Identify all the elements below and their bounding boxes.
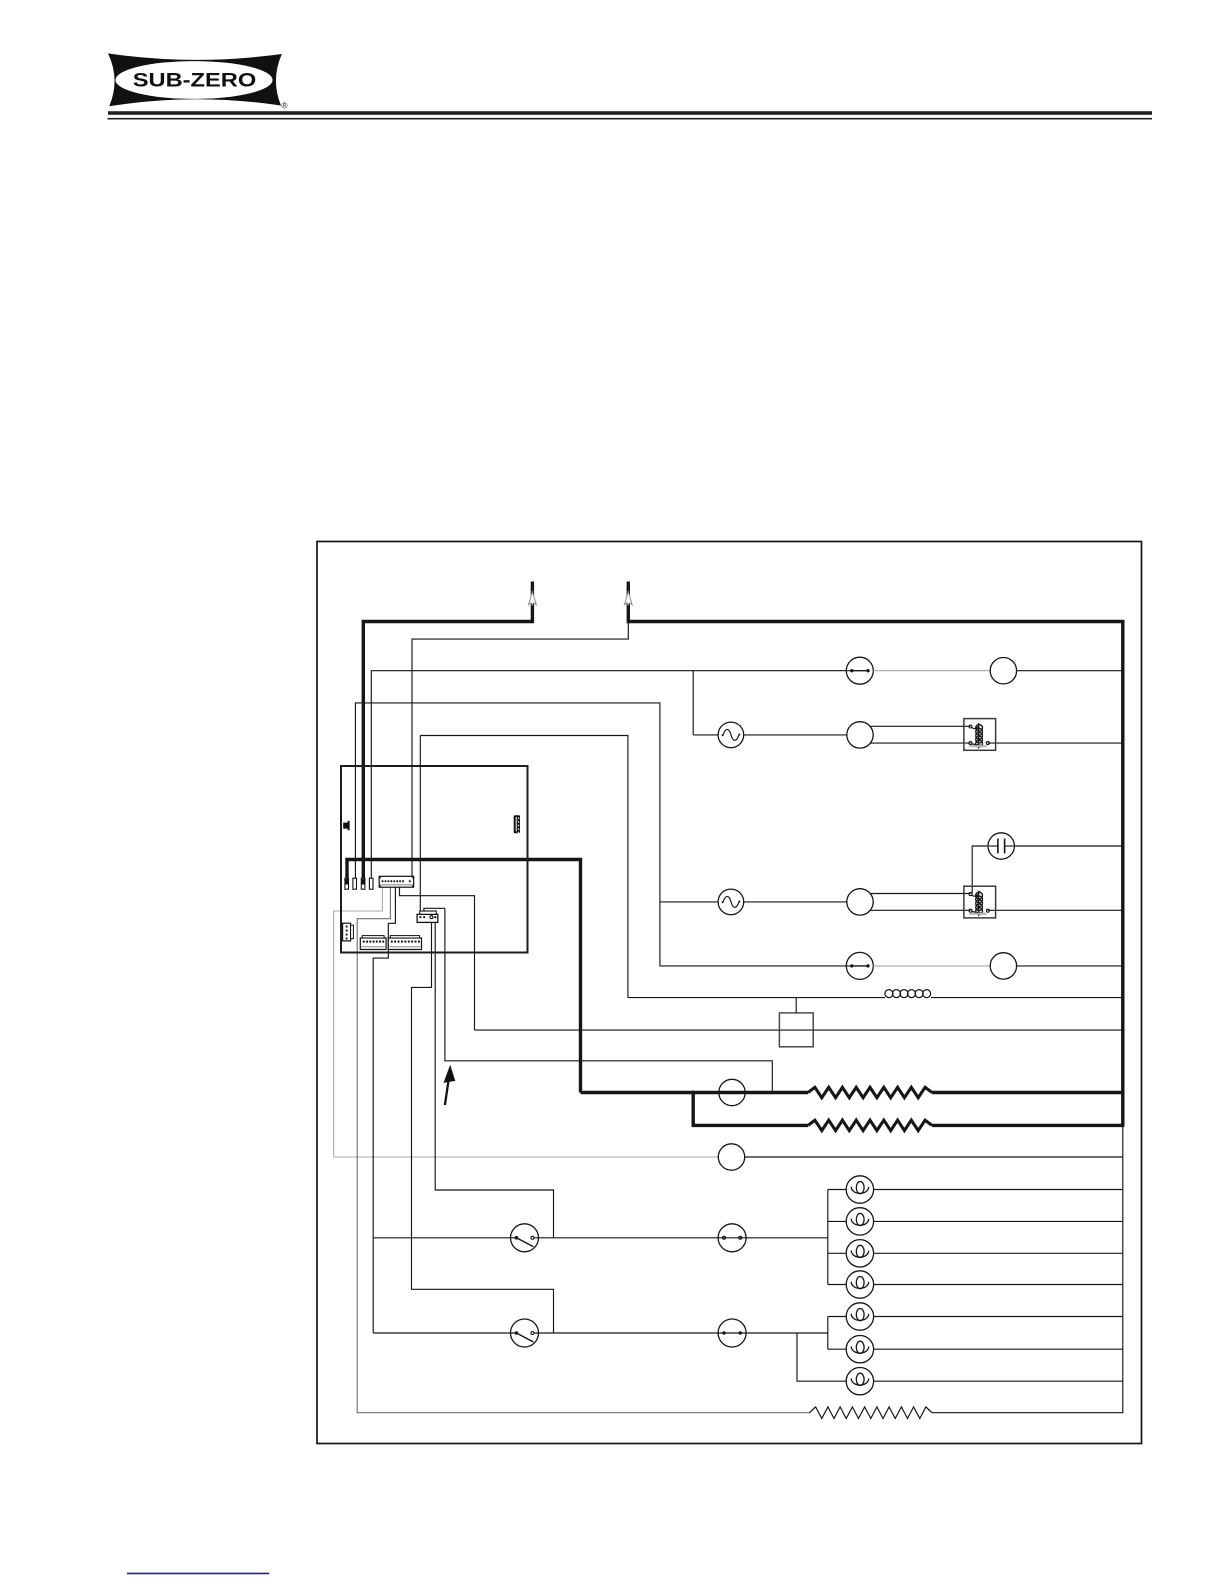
wire lamp 7 to bus: [874, 1380, 1123, 1382]
board icon small connector left: [343, 821, 349, 830]
wire thick heater lower to bus: [932, 1124, 1124, 1127]
header rule thick: [108, 111, 1152, 115]
wire row A middle gray: [873, 670, 990, 672]
wire plug2 sense to J1: [412, 623, 628, 877]
wire row A left: [371, 671, 852, 880]
resistor heater R2 zigzag: [808, 1120, 932, 1130]
wire row E left: [660, 965, 852, 967]
compressor motor circle row B: [847, 722, 873, 748]
wire row D left: [660, 901, 718, 903]
wire capacitor to bus: [1014, 845, 1122, 847]
wire row B mid: [744, 734, 847, 736]
wire thick heater upper to bus: [932, 1091, 1124, 1094]
wire lamp 2 stub: [828, 1220, 846, 1222]
wire L1 thick to board pin3: [363, 622, 532, 880]
wire lamp 1 stub: [828, 1189, 846, 1191]
lamp DS6: [846, 1336, 873, 1363]
overload protector circle row E: [846, 952, 873, 979]
wire row E right: [1017, 965, 1123, 967]
plug P1 line terminal: [529, 582, 537, 624]
lamp DS3: [846, 1240, 873, 1267]
wire row L left: [373, 1237, 516, 1239]
wire thick heater branch: [693, 1091, 808, 1126]
wire thick board pin1 heater feed: [347, 860, 581, 1093]
wire row M mid: [534, 1332, 718, 1334]
relay K1 start relay freezer: [964, 719, 996, 751]
lamp feeder bus upper: [827, 1190, 829, 1285]
wire K3 riser row H: [445, 908, 772, 1092]
wire row D mid: [744, 901, 847, 903]
lamp DS5: [846, 1303, 873, 1330]
wire harness 2: [357, 887, 390, 1412]
plug P2 neutral terminal: [624, 582, 632, 624]
wire row K right: [745, 1156, 1123, 1158]
wire row B lower to relay: [870, 742, 971, 744]
AC source symbol row B: [718, 722, 744, 748]
wire lamp 4 stub: [828, 1284, 846, 1286]
wire row F left: [628, 997, 885, 999]
svg-text:®: ®: [282, 101, 288, 110]
connector J3 4-pin: [343, 923, 354, 941]
wire K3 to row M: [412, 922, 554, 1333]
resistor heater R1 zigzag: [808, 1087, 932, 1097]
wire J1 riser to switch rows: [373, 887, 395, 1333]
wire row M right to lamp bus: [746, 1332, 828, 1334]
wire thick heater row upper: [581, 1091, 809, 1094]
wire row A to row B drop: [692, 671, 694, 735]
header rule thin: [108, 118, 1153, 120]
wire capacitor to relay K2: [972, 846, 988, 894]
relay K2 start relay refrigerator: [964, 886, 996, 918]
wire row N right: [932, 1412, 1123, 1414]
footer blue line: [127, 1573, 269, 1575]
control board outline: [341, 766, 528, 953]
connector J5 strip: [388, 936, 421, 950]
resistor R3 zigzag: [810, 1407, 933, 1419]
switch S1 (open): [511, 1224, 539, 1252]
wire board pin2 riser to rows D/E: [355, 703, 660, 966]
wire lamp 5 stub: [828, 1316, 846, 1318]
wire K3 to row L: [435, 922, 553, 1237]
relay terminal circle row A: [990, 658, 1016, 684]
terminal circle row I: [719, 1079, 745, 1105]
connector J1 8-pin: [379, 876, 413, 887]
wire row G right: [813, 1029, 1123, 1031]
lamp DS7: [846, 1368, 873, 1395]
board pin 2: [353, 878, 357, 889]
board icon small connector right: [514, 815, 520, 833]
wire lamp 1 to bus: [874, 1189, 1123, 1191]
wire lamp 6 to bus: [874, 1348, 1123, 1350]
wire row D relay out to bus: [988, 909, 1123, 911]
relay terminal circle row E: [990, 953, 1016, 979]
wire row M left: [373, 1332, 516, 1334]
wire row B left: [693, 734, 718, 736]
wire J1 riser to row G: [400, 887, 475, 1030]
wire row D lower to relay: [870, 909, 971, 911]
wire riser into K3: [419, 736, 421, 912]
wire lamp 3 to bus: [874, 1252, 1123, 1254]
wire row B upper to relay: [870, 725, 971, 727]
wire gray harness 1: [334, 887, 383, 1157]
terminal circle row L: [718, 1224, 746, 1252]
overload protector OL circle: [846, 657, 873, 684]
wire board riser to solenoid row: [420, 736, 628, 998]
wire K3 top loop: [424, 908, 445, 911]
board pin 1: [345, 878, 349, 889]
wire row F right: [931, 997, 1123, 999]
diagram border frame: [317, 542, 1142, 1444]
terminal circle row K: [718, 1144, 744, 1170]
lamp 7 feeder: [797, 1333, 846, 1381]
switch S2 (open): [511, 1319, 539, 1347]
wire row L mid: [534, 1237, 718, 1239]
lamp DS2: [846, 1208, 873, 1235]
board pin 3: [361, 878, 365, 889]
wire lamp 5 to bus: [874, 1316, 1123, 1318]
wire row G left: [475, 1029, 780, 1031]
wire row A right: [1017, 670, 1123, 672]
wire row D upper to relay: [870, 893, 971, 895]
terminal circle row M: [718, 1319, 746, 1347]
connector K3: [417, 911, 438, 922]
run capacitor C1: [988, 833, 1014, 859]
Sub-Zero logo: [108, 53, 288, 110]
wire lamp 6 stub: [828, 1348, 846, 1350]
AC source symbol row D: [718, 889, 744, 915]
annotation arrow: [444, 1065, 456, 1105]
wire N thick top to right bus: [627, 622, 1123, 1126]
component box (defrost timer): [779, 998, 813, 1047]
wire row B relay out to bus: [988, 742, 1123, 744]
compressor motor circle row D: [847, 889, 873, 915]
wire lamp 3 stub: [828, 1252, 846, 1254]
solenoid coil L1: [885, 990, 931, 998]
wire row E middle gray: [873, 965, 990, 967]
wire lamp 2 to bus: [874, 1220, 1123, 1222]
lamp DS4: [846, 1271, 873, 1298]
lamp feeder bus lower: [827, 1317, 829, 1350]
board pin 4: [369, 878, 373, 889]
svg-text:SUB-ZERO: SUB-ZERO: [133, 71, 257, 92]
wire row N left: [357, 1412, 809, 1414]
lamp DS1: [846, 1176, 873, 1203]
wire right bus lower: [1122, 1125, 1124, 1412]
wire row L right to lamp bus: [746, 1237, 828, 1239]
connector J4 strip: [360, 936, 386, 950]
wire row K gray left: [334, 1156, 719, 1158]
wire lamp 4 to bus: [874, 1284, 1123, 1286]
